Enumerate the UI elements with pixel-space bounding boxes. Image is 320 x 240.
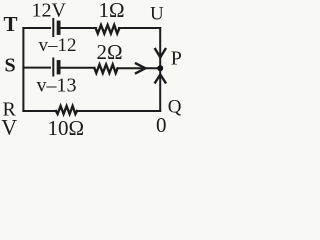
battery B1 thin plate (long) [52, 19, 54, 36]
left vertical wire from T corner through S junction to R corner [22, 28, 24, 111]
svg-text:1Ω: 1Ω [99, 0, 125, 22]
svg-text:U: U [150, 4, 164, 25]
wire resistor R3 to Q corner [77, 110, 160, 112]
resistor R1 1ohm zigzag [96, 25, 119, 34]
current arrow pointing down into P [155, 49, 165, 57]
svg-text:v–13: v–13 [37, 75, 77, 97]
current arrow pointing right into P [136, 64, 145, 74]
svg-text:2Ω: 2Ω [97, 40, 123, 64]
svg-text:v–12: v–12 [39, 35, 77, 56]
resistor R2 2ohm zigzag [95, 65, 118, 74]
wire bottom from R corner to resistor R3 [23, 110, 56, 112]
wire resistor R2 to node P [118, 67, 161, 69]
svg-text:0: 0 [156, 113, 167, 137]
svg-text:12V: 12V [32, 0, 67, 22]
node P junction dot [157, 65, 163, 71]
battery B1 thick plate (short) [57, 23, 61, 34]
svg-text:V: V [1, 115, 17, 138]
battery B2 thin plate (long) [52, 59, 54, 76]
wire battery B1 to resistor R1 [61, 27, 96, 29]
current arrow pointing up into P [155, 75, 165, 83]
right vertical wire node P down to Q corner [159, 68, 161, 111]
right vertical wire U corner down to node P [159, 28, 161, 68]
wire top-left from node T corner to battery B1 [23, 27, 50, 29]
svg-text:S: S [5, 55, 16, 77]
battery B2 thick plate (short) [57, 62, 61, 73]
wire resistor R1 to corner U [119, 27, 160, 29]
wire middle from node S junction to battery B2 [23, 67, 50, 69]
svg-text:P: P [171, 48, 182, 70]
svg-text:T: T [4, 12, 18, 36]
wire battery B2 to resistor R2 [61, 67, 95, 69]
svg-text:10Ω: 10Ω [48, 116, 85, 137]
svg-text:Q: Q [168, 97, 182, 118]
resistor R3 10ohm zigzag [56, 106, 77, 114]
